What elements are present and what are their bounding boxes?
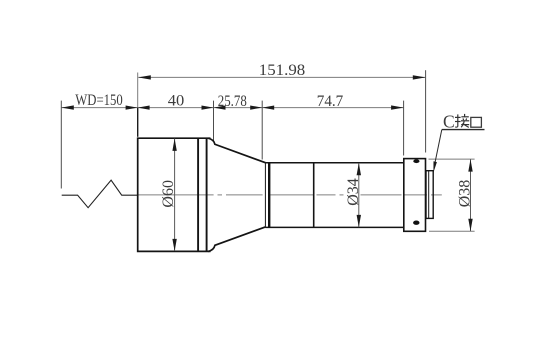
svg-text:C: C	[443, 111, 455, 131]
dimension phi60	[174, 139, 176, 251]
dimension 151.98 arrows	[138, 75, 426, 79]
ext 25.78/74.7 junction	[261, 101, 263, 160]
ext 151.98 left / lens front face projection	[137, 73, 139, 108]
barrel phi34	[265, 163, 403, 228]
svg-text:WD=150: WD=150	[75, 92, 123, 109]
lens body: big cylinder phi60	[138, 138, 266, 251]
screw hole bottom	[413, 221, 419, 225]
barrel mid ring	[313, 163, 315, 228]
svg-text:Ø38: Ø38	[456, 180, 473, 208]
rounded corner + cone bottom slant	[208, 227, 265, 252]
dimension phi34	[358, 163, 360, 227]
dimension 151.98 line	[138, 76, 425, 78]
centerline (optical axis)	[138, 194, 442, 196]
ext phi38 bottom	[429, 230, 475, 232]
ext 74.7 right	[403, 101, 405, 156]
object plane line with break zigzag	[62, 180, 138, 208]
svg-text:25.78: 25.78	[218, 93, 247, 110]
ext phi38 top	[429, 158, 475, 160]
ext 151.98 right	[425, 70, 427, 152]
dimension phi38	[470, 159, 472, 231]
C-mount label leader	[434, 130, 441, 166]
ext 40/25.78 junction	[213, 101, 215, 142]
ring lines on big cylinder	[197, 138, 199, 251]
dimension row WD=150 / 40 / 25.78 / 74.7 line	[61, 107, 403, 109]
glyph 接	[455, 114, 469, 128]
svg-text:74.7: 74.7	[317, 93, 344, 110]
svg-text:Ø34: Ø34	[345, 178, 362, 206]
svg-text:151.98: 151.98	[259, 62, 306, 79]
extension lines	[61, 70, 474, 231]
ring at barrel start	[268, 163, 270, 228]
glyph 口	[471, 117, 482, 127]
screw hole top	[413, 159, 419, 163]
svg-text:Ø60: Ø60	[160, 180, 177, 208]
flange	[404, 159, 426, 232]
arrows row2	[61, 105, 403, 109]
svg-text:40: 40	[168, 93, 185, 110]
cone end vertical	[264, 163, 266, 227]
leader arrowhead	[433, 161, 437, 172]
label underline	[442, 129, 485, 131]
rounded corner + cone top slant	[208, 138, 265, 163]
C-mount protrusion	[426, 171, 433, 219]
ext WD left	[60, 101, 62, 189]
